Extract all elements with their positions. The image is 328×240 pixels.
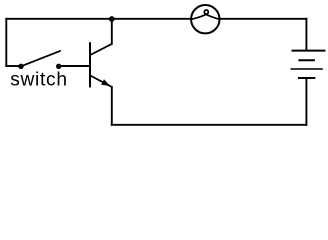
wire right rail upper (to battery +): [305, 18, 307, 51]
wire switch to base: [59, 65, 91, 67]
wire collector to top rail: [111, 19, 113, 45]
lamp filament loop: [204, 10, 208, 14]
lamp filament right lead: [204, 14, 220, 20]
wire top rail right: [220, 18, 308, 20]
battery plate short -: [298, 59, 315, 61]
wire right rail lower (battery - to bottom rail): [305, 78, 307, 126]
transistor Q1 collector diagonal: [90, 44, 112, 55]
wire left rail: [5, 18, 7, 67]
wire bottom rail: [111, 124, 308, 126]
switch throw contact: [56, 64, 61, 69]
transistor Q1 emitter arrowhead: [101, 79, 110, 86]
battery plate long + (gray): [291, 68, 323, 70]
wire top rail left: [5, 18, 191, 20]
switch pole contact: [18, 64, 23, 69]
transistor Q1 emitter diagonal: [90, 76, 112, 87]
battery plate long + (top): [292, 50, 326, 52]
lamp circle: [191, 5, 219, 33]
lamp filament left lead: [191, 14, 208, 20]
switch lever: [21, 51, 61, 67]
node junction collector/top-rail: [109, 16, 115, 22]
wire emitter to bottom rail: [111, 86, 113, 126]
wire left rail to switch: [5, 65, 21, 67]
transistor Q1 base bar: [89, 42, 91, 87]
battery plate short - (bottom): [298, 77, 315, 79]
svg-text:switch: switch: [10, 69, 68, 90]
